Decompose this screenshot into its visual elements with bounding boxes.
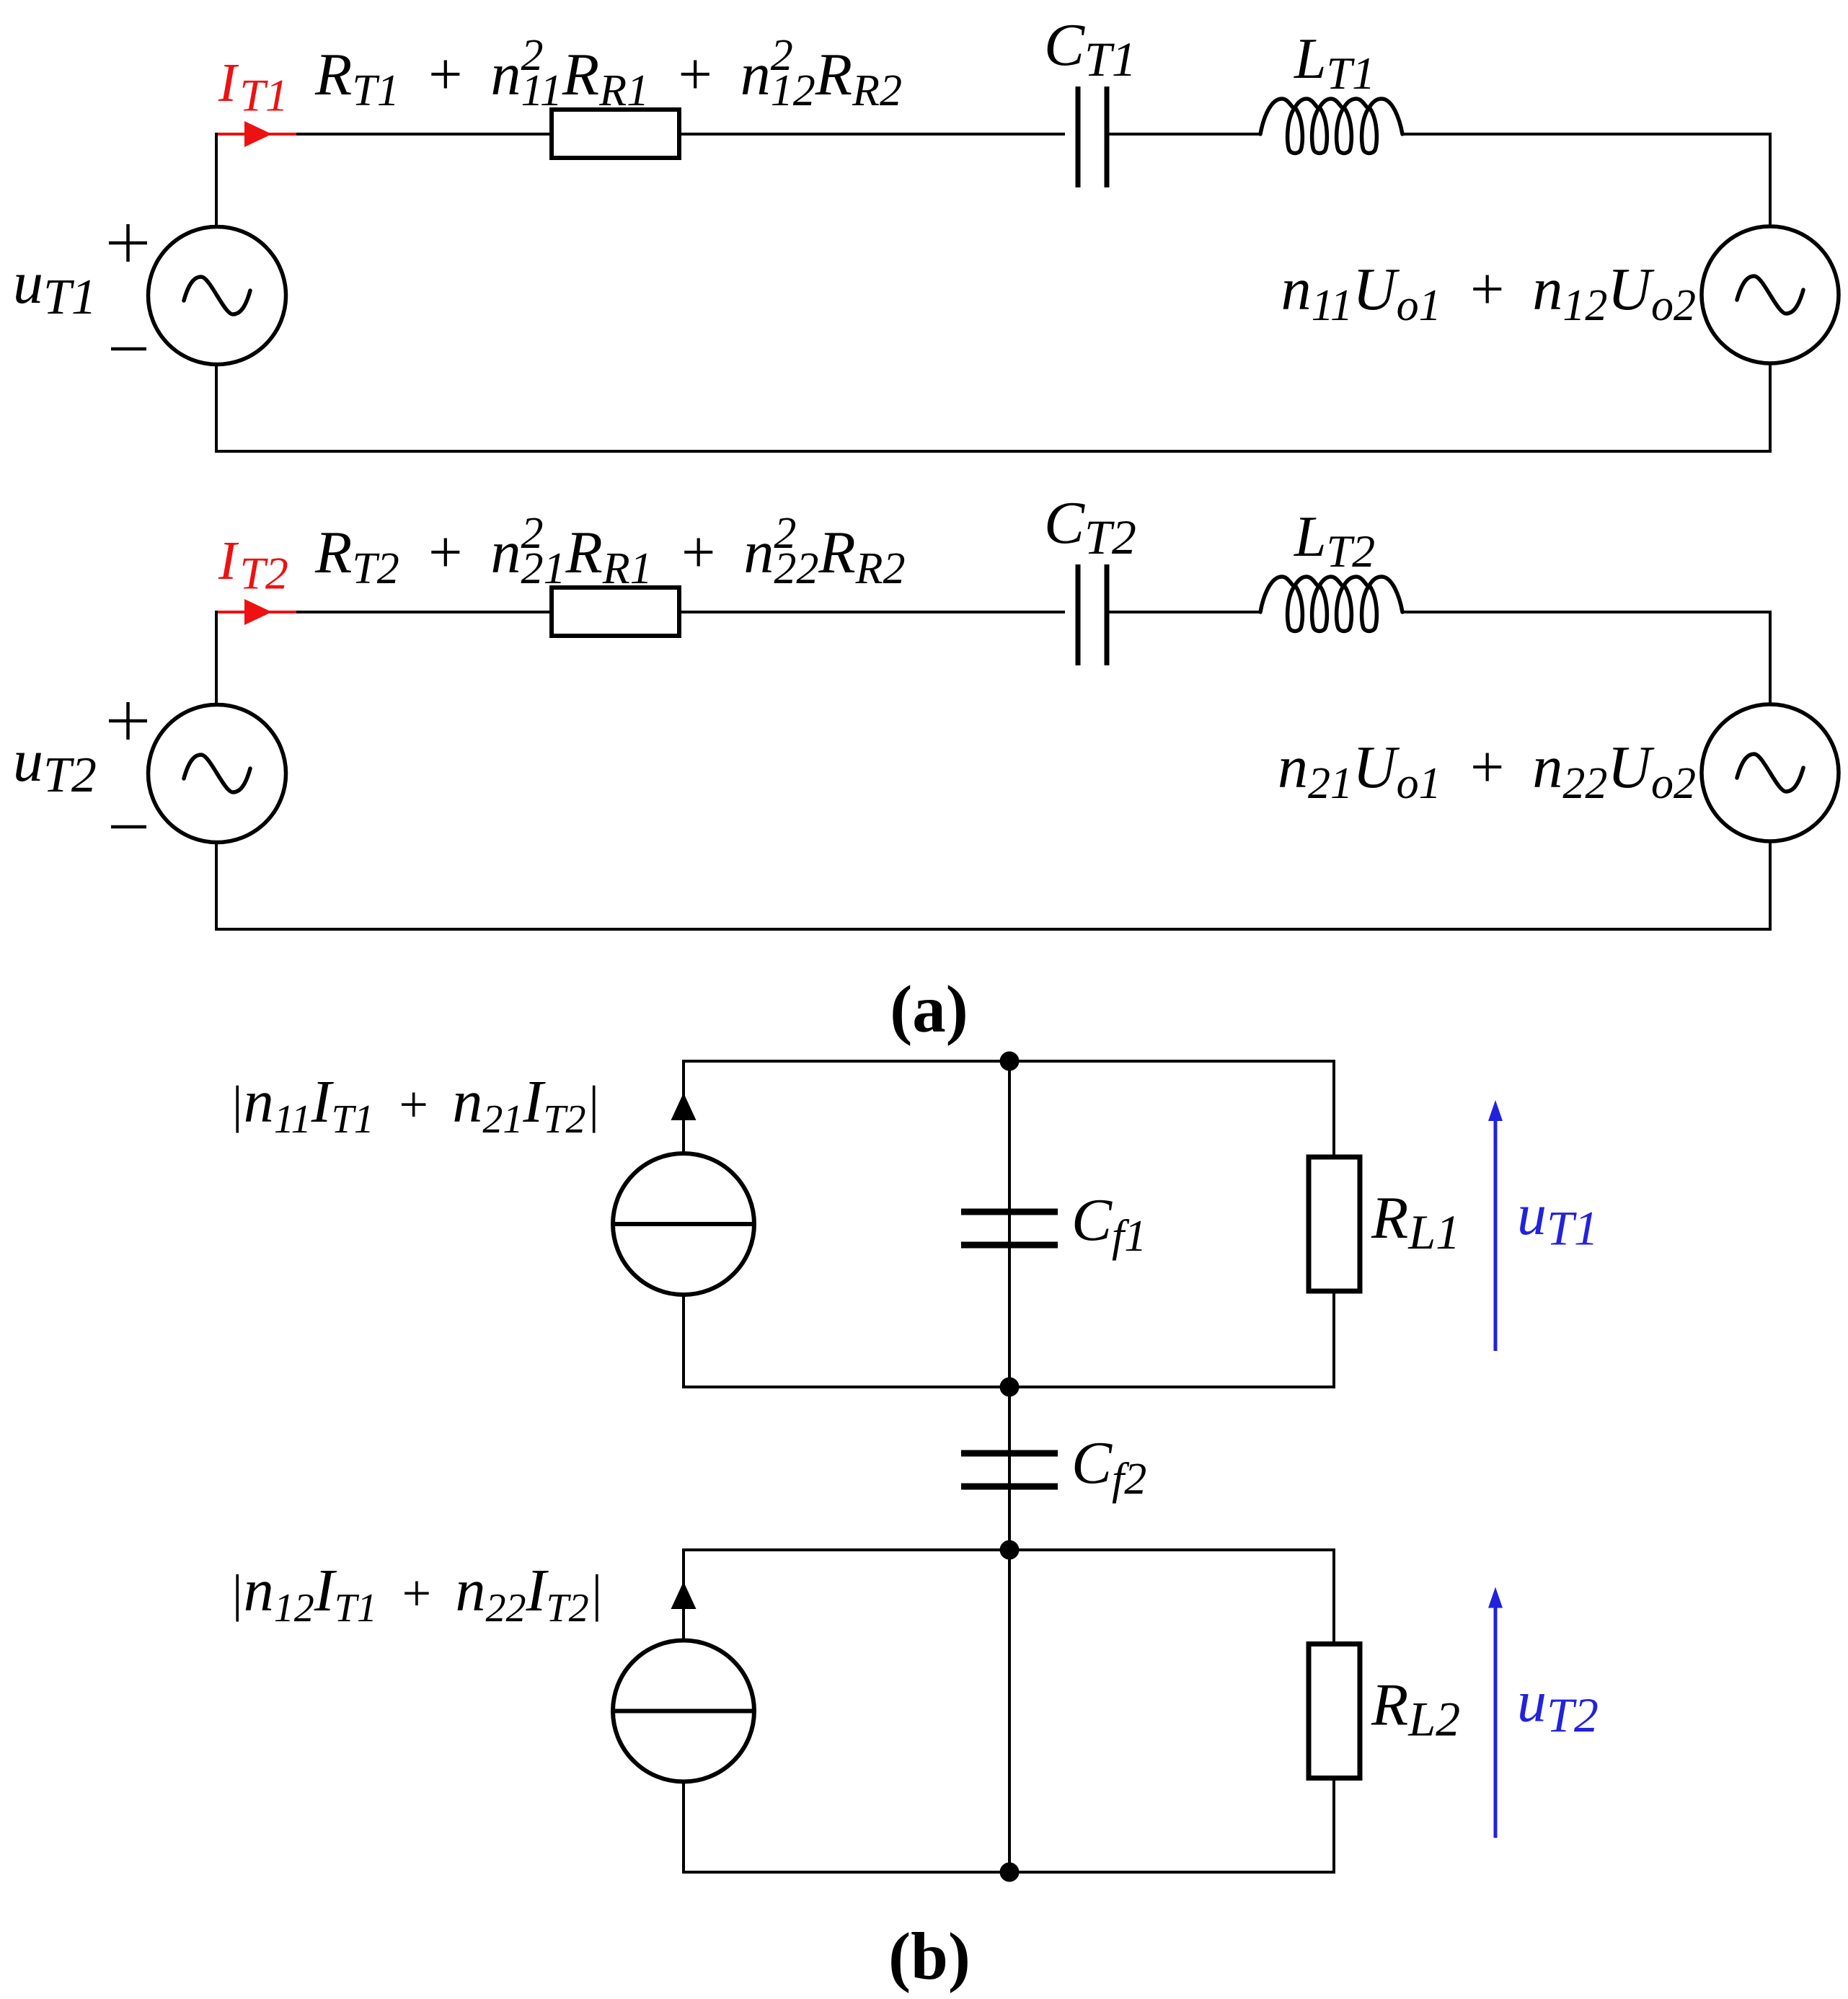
wire right upper b1 [1332,1061,1335,1157]
wire top a1 seg1 [296,133,552,136]
inductor L_T1 [1260,99,1402,154]
wire bottom a2 [215,928,1772,931]
minus sign u_T2 [111,825,146,829]
voltage arrow u_T1 blue [1488,1100,1503,1351]
current arrow b1 [671,1093,697,1120]
plus sign u_T2 [109,702,147,740]
svg-text:(b): (b) [888,1920,971,1994]
wire left lower b1 [682,1295,685,1387]
voltage arrow u_T2 blue [1488,1587,1503,1838]
capacitor C_f2 [961,1453,1058,1486]
wire right lower a1 [1769,363,1772,453]
resistor R_T1 [552,110,679,158]
wire left upper a2 [215,611,218,705]
wire right lower a2 [1769,841,1772,931]
capacitor C_T2 [1078,564,1107,665]
wire right upper a1 [1769,133,1772,226]
wire top a2 seg3 [1106,611,1260,613]
wire top a1 seg4 [1402,133,1770,136]
capacitor C_f1 [961,1212,1058,1245]
wire bottom a1 [215,450,1772,453]
wire top-left red segment loop1 [216,133,296,136]
svg-text:(a): (a) [890,972,968,1047]
wire right lower b2 [1332,1778,1335,1873]
node dot bottom b1 [1000,1378,1020,1397]
plus sign u_T1 [109,224,147,262]
wire mid between sections [1008,1387,1011,1550]
inductor L_T2 [1260,577,1402,631]
voltage source u_T2 [149,705,286,843]
current arrow I_T1 red [244,121,272,147]
wire top a1 seg2 [679,133,1065,136]
wire left upper b1 [682,1061,685,1153]
wire mid b2 [1008,1550,1011,1872]
node dot top b2 [1000,1541,1020,1560]
wire mid b1 [1008,1061,1011,1387]
wire top a1 seg3 [1106,133,1260,136]
wire left lower a1 [215,365,218,452]
wire left lower a2 [215,843,218,930]
rail bottom b2 [682,1871,1335,1874]
resistor R_L1 [1309,1157,1360,1291]
wire right upper a2 [1769,611,1772,704]
wire left upper b2 [682,1550,685,1641]
wire right upper b2 [1332,1550,1335,1644]
wire top a2 seg1 [296,611,552,613]
voltage source u_T1 [149,227,286,365]
node dot bottom b2 [1000,1863,1020,1882]
minus sign u_T1 [111,347,146,351]
rail top b1 [682,1060,1335,1063]
wire left lower b2 [682,1782,685,1873]
rail top b2 [682,1548,1335,1551]
wire top a2 seg4 [1402,611,1770,613]
resistor R_L2 [1309,1644,1360,1778]
voltage source n11Uo1 + n12Uo2 [1702,226,1839,363]
current arrow I_T2 red [244,599,272,625]
current arrow b2 [671,1582,697,1609]
resistor R_T2 [552,588,679,636]
current source b2 [613,1641,754,1782]
wire right lower b1 [1332,1291,1335,1387]
node dot top b1 [1000,1052,1020,1071]
wire left upper a1 [215,133,218,227]
capacitor C_T1 [1078,87,1107,187]
current source b1 [613,1153,754,1295]
voltage source n21Uo1 + n22Uo2 [1702,704,1839,841]
wire top a2 seg2 [679,611,1065,613]
rail bottom b1 [682,1386,1335,1388]
wire top-left red segment loop2 [216,611,296,613]
